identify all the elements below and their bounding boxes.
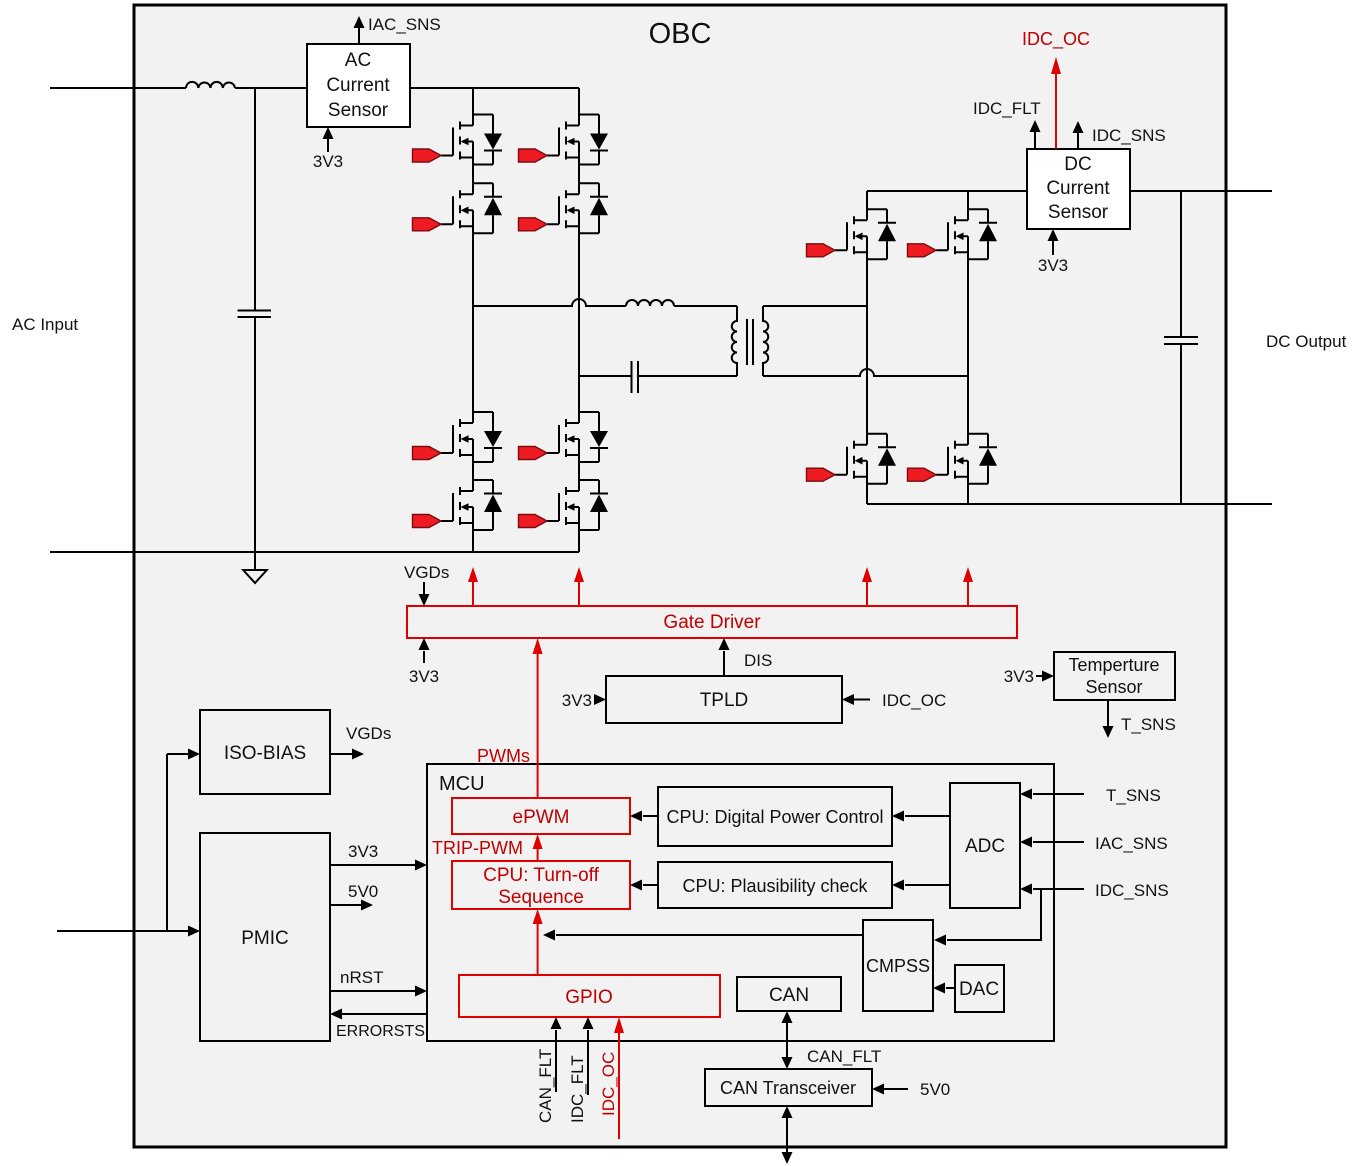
node T_SNS into ADC (1020, 786, 1161, 805)
svg-text:Gate Driver: Gate Driver (663, 612, 761, 633)
svg-text:AC Input: AC Input (12, 315, 78, 334)
svg-text:DIS: DIS (744, 651, 772, 670)
wire PFC rail 1 (472, 88, 474, 552)
node DIS TPLD to gate driver (719, 638, 773, 676)
wire TRIP-PWM turn-off to ePWM (432, 834, 543, 861)
wire DC rail B (967, 191, 969, 504)
node 3V3 into temperature sensor (1004, 667, 1054, 686)
AC current sensor U1 (307, 44, 410, 127)
svg-text:3V3: 3V3 (1004, 667, 1034, 686)
wire DC rail A (866, 191, 868, 504)
wire AC shunt branch (254, 88, 256, 570)
transistor Q12 (908, 434, 998, 484)
PMIC U7 (200, 833, 330, 1041)
node VGDs out of ISO-BIAS (330, 724, 391, 760)
svg-text:ISO-BIAS: ISO-BIAS (224, 743, 306, 764)
wire ADC to CPU DPC (892, 811, 950, 822)
wire gate drive output 1 (468, 567, 478, 606)
wire secondary bottom with hop over rail A (763, 369, 968, 376)
svg-text:3V3: 3V3 (1038, 256, 1068, 275)
ISO-BIAS U6 (200, 710, 330, 794)
node IAC_SNS output arrow (354, 15, 441, 44)
svg-text:VGDs: VGDs (404, 563, 449, 582)
node T_SNS out of temperature sensor (1103, 700, 1176, 738)
transformer T1 primary (732, 306, 737, 376)
node VGDs into gate driver (404, 563, 449, 606)
node IDC_SNS into ADC and CMPSS (934, 881, 1169, 946)
transistor Q11 (807, 434, 897, 484)
node IAC_SNS into ADC (1020, 834, 1168, 853)
wire CAN to CAN transceiver (782, 1011, 882, 1069)
svg-text:CAN_FLT: CAN_FLT (536, 1049, 555, 1123)
svg-text:Sensor: Sensor (1085, 677, 1142, 697)
node IDC_OC red arrow (1022, 29, 1090, 149)
node nRST PMIC to MCU (330, 968, 427, 997)
wire CPU DPC to ePWM (630, 811, 658, 822)
inductor resonant (626, 300, 674, 306)
svg-text:MCU: MCU (439, 773, 485, 795)
svg-text:AC: AC (345, 50, 371, 71)
wire GPIO to turn-off sequence (533, 909, 543, 975)
svg-text:CAN Transceiver: CAN Transceiver (720, 1078, 856, 1098)
svg-text:DC Output: DC Output (1266, 332, 1347, 351)
wire phase node A with hop over rail 2 (473, 299, 737, 306)
wire PFC rail 2 (578, 88, 580, 552)
svg-text:3V3: 3V3 (348, 842, 378, 861)
svg-text:IDC_FLT: IDC_FLT (973, 99, 1041, 118)
wire gate drive output 2 (574, 567, 584, 606)
wire phase node B (579, 375, 737, 377)
svg-text:DC: DC (1064, 154, 1091, 175)
svg-text:IDC_OC: IDC_OC (882, 691, 946, 710)
svg-text:IAC_SNS: IAC_SNS (1095, 834, 1168, 853)
node IDC_SNS arrow (1073, 121, 1166, 149)
wire AC line bottom (50, 551, 579, 553)
ePWM block (452, 798, 630, 834)
svg-text:IDC_SNS: IDC_SNS (1095, 881, 1169, 900)
node ERRORSTS MCU to PMIC (330, 1009, 427, 1041)
CPU plausibility check block (658, 862, 892, 908)
capacitor DC output (1164, 337, 1198, 344)
svg-text:Sequence: Sequence (498, 887, 584, 908)
svg-text:IDC_OC: IDC_OC (599, 1052, 618, 1116)
wire ADC to plausibility (892, 880, 950, 891)
TPLD U4 (606, 676, 842, 723)
node IDC_OC into TPLD (842, 691, 946, 710)
wire DC output top (867, 190, 1272, 192)
svg-text:Sensor: Sensor (328, 100, 389, 121)
node IDC_FLT into GPIO (568, 1017, 594, 1123)
svg-text:IAC_SNS: IAC_SNS (368, 15, 441, 34)
node 5V0 out of PMIC (330, 882, 378, 911)
wire CMPSS to turn-off trip (543, 930, 863, 941)
CPU digital power control block (658, 787, 892, 846)
svg-text:ePWM: ePWM (513, 807, 570, 828)
DC current sensor U2 (1027, 149, 1130, 229)
svg-text:T_SNS: T_SNS (1106, 786, 1161, 805)
svg-text:CAN_FLT: CAN_FLT (807, 1047, 881, 1066)
wire plausibility to turn-off (630, 880, 658, 891)
capacitor AC shunt (238, 311, 272, 318)
wire gate drive output 4 (963, 567, 973, 606)
svg-text:CPU: Digital Power Control: CPU: Digital Power Control (666, 807, 883, 827)
svg-text:5V0: 5V0 (348, 882, 378, 901)
svg-text:3V3: 3V3 (313, 152, 343, 171)
MCU U8 (427, 764, 1054, 1041)
transistor Q10 (908, 209, 998, 259)
svg-text:IDC_SNS: IDC_SNS (1092, 126, 1166, 145)
transistor Q8 (519, 480, 609, 530)
gate driver U3 (407, 606, 1017, 638)
svg-text:Temperture: Temperture (1068, 655, 1159, 675)
node 3V3 PMIC to MCU (330, 842, 427, 871)
node 3V3 into DC sensor (1038, 229, 1068, 275)
transistor Q9 (807, 209, 897, 259)
svg-text:Current: Current (1046, 178, 1110, 199)
OBC enclosure (134, 5, 1226, 1147)
transistor Q3 (519, 115, 609, 165)
node IDC_OC into GPIO (599, 1017, 624, 1139)
wire CAN bus external (782, 1106, 793, 1164)
wire supply input to PMIC and ISO-BIAS (57, 749, 200, 937)
transistor Q5 (413, 412, 503, 462)
svg-text:PMIC: PMIC (241, 928, 289, 949)
node 3V3 into TPLD (562, 691, 606, 710)
transistor Q4 (519, 183, 609, 233)
svg-text:Sensor: Sensor (1048, 202, 1109, 223)
svg-text:Current: Current (326, 75, 390, 96)
node 3V3 into AC sensor (313, 127, 343, 171)
svg-text:IDC_OC: IDC_OC (1022, 29, 1090, 50)
CMPSS block (863, 920, 933, 1011)
wire AC line top (50, 87, 579, 89)
svg-text:OBC: OBC (649, 18, 712, 50)
svg-text:TRIP-PWM: TRIP-PWM (432, 838, 523, 858)
svg-text:CPU: Turn-off: CPU: Turn-off (483, 865, 600, 886)
svg-text:TPLD: TPLD (700, 690, 749, 711)
node IDC_FLT arrow (973, 99, 1041, 149)
svg-text:ADC: ADC (965, 836, 1005, 857)
wire gate drive output 3 (862, 567, 872, 606)
wire secondary top (763, 305, 867, 307)
svg-text:nRST: nRST (340, 968, 383, 987)
transformer T1 core (747, 319, 753, 365)
node CAN_FLT into GPIO (536, 1017, 562, 1123)
transistor Q1 (413, 115, 503, 165)
wire DAC to CMPSS (933, 983, 955, 994)
svg-text:CPU: Plausibility check: CPU: Plausibility check (682, 876, 868, 896)
node 3V3 into gate driver (409, 638, 439, 686)
svg-text:IDC_FLT: IDC_FLT (568, 1055, 587, 1123)
wire DC output bottom (867, 503, 1272, 505)
transistor Q6 (413, 480, 503, 530)
svg-text:PWMs: PWMs (477, 746, 530, 766)
svg-text:T_SNS: T_SNS (1121, 715, 1176, 734)
ground (243, 570, 267, 583)
inductor AC input filter (186, 82, 235, 88)
wire PWMs ePWM to gate driver (477, 638, 543, 798)
svg-text:3V3: 3V3 (409, 667, 439, 686)
svg-text:CMPSS: CMPSS (866, 956, 930, 976)
svg-text:ERRORSTS: ERRORSTS (336, 1023, 425, 1040)
svg-text:GPIO: GPIO (565, 987, 613, 1008)
temperature sensor U5 (1054, 652, 1175, 700)
svg-text:VGDs: VGDs (346, 724, 391, 743)
svg-text:5V0: 5V0 (920, 1080, 950, 1099)
transformer T1 secondary (763, 306, 768, 376)
GPIO block (459, 975, 720, 1017)
CAN block (737, 977, 841, 1011)
wire DC cap branch (1180, 191, 1182, 504)
CPU turn-off sequence block (452, 861, 630, 909)
transistor Q2 (413, 183, 503, 233)
capacitor resonant series (632, 361, 639, 393)
CAN transceiver U9 (705, 1069, 872, 1106)
svg-text:3V3: 3V3 (562, 691, 592, 710)
svg-text:CAN: CAN (769, 985, 809, 1006)
node 5V0 into CAN transceiver (872, 1080, 950, 1099)
svg-text:DAC: DAC (959, 979, 999, 1000)
ADC block (950, 783, 1020, 908)
transistor Q7 (519, 412, 609, 462)
DAC block (955, 965, 1004, 1012)
